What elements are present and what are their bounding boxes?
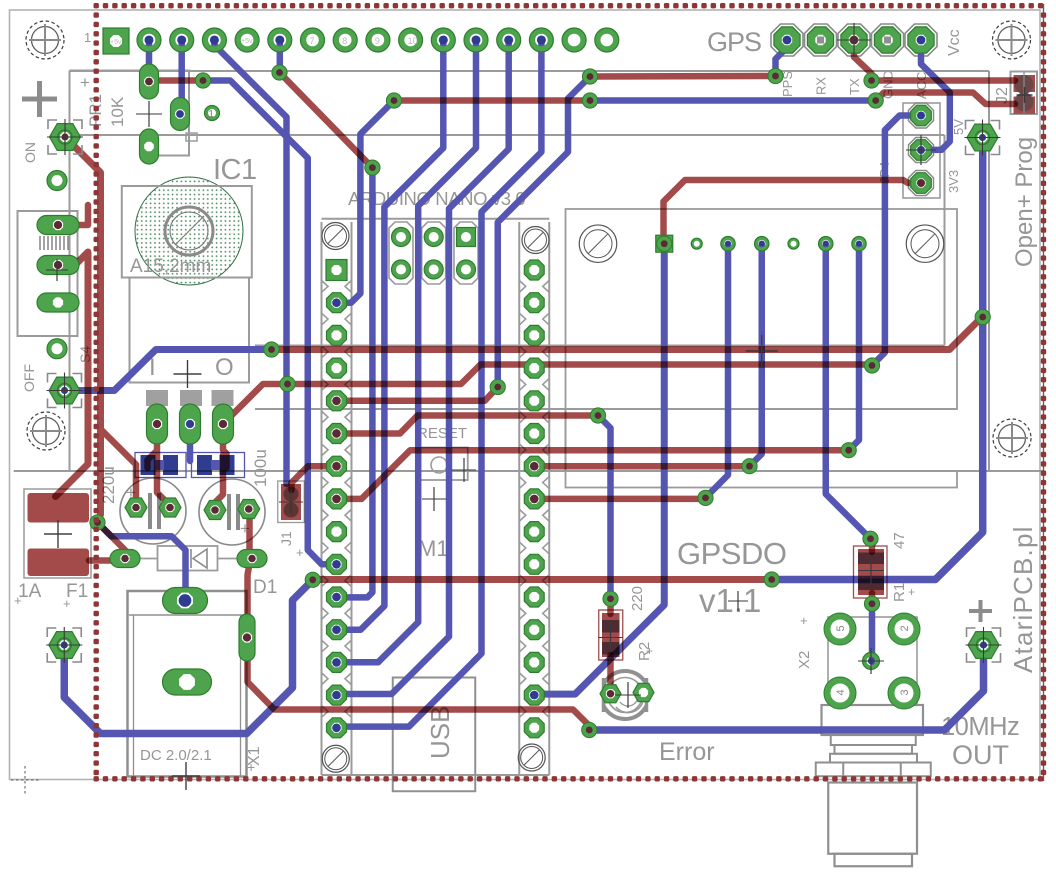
ICSP pad 3	[457, 228, 476, 247]
svg-text:OFF: OFF	[21, 364, 37, 392]
trace via diagonal	[280, 73, 373, 168]
nano pad R12	[524, 620, 544, 640]
X2 pad 3	[888, 677, 920, 709]
PR1 pad 1	[140, 64, 159, 99]
S4 origin cross	[46, 259, 68, 281]
trace S4 stub	[58, 205, 88, 225]
wire GND bottom rail	[589, 642, 983, 730]
header pad 5	[268, 28, 292, 52]
svg-text:D1: D1	[253, 577, 277, 598]
mounting hole top-right	[993, 21, 1031, 59]
capacitor C3 C4 outlines	[135, 453, 245, 478]
SMA connector outline	[816, 705, 931, 866]
ICSP pad 2	[424, 228, 443, 247]
header pad 8	[366, 28, 390, 52]
PR1 pad 3	[171, 98, 190, 131]
connector X1 label	[246, 746, 263, 775]
wire via to R2 via	[598, 416, 611, 599]
svg-text:8: 8	[342, 36, 347, 46]
svg-text:3V3: 3V3	[946, 170, 961, 193]
header pad 13	[529, 28, 553, 52]
trace branch to C1	[101, 429, 137, 505]
Nano hole marker bottom-right	[518, 744, 545, 771]
C2 pad 1	[204, 501, 226, 520]
wire bus to GPS via	[590, 97, 876, 104]
IC1 label	[213, 154, 257, 186]
svg-text:5: 5	[835, 625, 847, 631]
USB connector outline	[393, 678, 476, 792]
header pad 12	[497, 28, 521, 52]
IC1 A15,2mm label	[130, 256, 211, 277]
svg-text:+: +	[63, 596, 71, 611]
header pad 10	[431, 28, 455, 52]
nano pad L12	[327, 620, 347, 640]
svg-text:220: 220	[629, 586, 646, 611]
header pad 15	[595, 28, 619, 52]
svg-text:4: 4	[835, 689, 847, 695]
svg-text:M1: M1	[418, 536, 449, 561]
OCXO small pad 1	[691, 238, 702, 249]
X2 pad 5	[824, 613, 856, 645]
silkscreen frame	[14, 71, 1043, 471]
svg-text:RESET: RESET	[417, 425, 467, 442]
JP4 pin 2	[911, 140, 932, 161]
reset button outline	[417, 448, 468, 481]
plus mark right	[969, 600, 992, 622]
PR1 pad 2	[140, 129, 159, 164]
nano pad L10	[327, 554, 347, 574]
GPS pad 5	[908, 27, 934, 53]
test point OFF	[47, 373, 83, 409]
svg-text:5V: 5V	[951, 119, 966, 135]
nano pad R13	[524, 652, 544, 672]
svg-text:10K: 10K	[108, 96, 127, 127]
OCXO pad C	[755, 237, 769, 251]
10MHz OUT label	[941, 713, 1019, 770]
svg-text:GPSDO: GPSDO	[677, 536, 786, 571]
OFF label	[21, 364, 37, 392]
nano pad R7	[524, 456, 544, 476]
OCXO pad E	[852, 237, 866, 251]
bottom copper traces	[64, 39, 983, 734]
JP4 label 3V3	[946, 170, 961, 193]
vias	[90, 65, 990, 738]
capacitor C1 outline	[120, 478, 186, 544]
JP4 pin 3	[911, 173, 932, 194]
svg-text:GPS: GPS	[707, 27, 761, 57]
wire pad1 to PR1	[146, 40, 153, 85]
trace via to via GPS row	[590, 73, 776, 80]
header square pad +5V	[103, 28, 129, 54]
trace IC1 pad1 to C1	[157, 452, 170, 506]
wire via to nano pad2	[337, 101, 395, 303]
GPS pin label ACC	[914, 72, 929, 99]
nano pad L3	[327, 325, 347, 345]
IC1 pad 3	[213, 404, 234, 444]
svg-text:3: 3	[899, 689, 911, 695]
IC1 body outline	[122, 186, 252, 406]
Error label	[659, 738, 715, 766]
trace R2 to via	[607, 599, 614, 614]
header pad 1	[137, 28, 161, 52]
LED pad 1	[600, 685, 621, 703]
GPS connector outline	[771, 24, 937, 56]
trace IC1 pad3 to C2	[215, 455, 223, 508]
svg-text:RX: RX	[814, 77, 829, 95]
JP4 pin 1	[911, 105, 932, 126]
OCXO bottom strip	[566, 471, 958, 488]
resistor R2	[599, 610, 623, 660]
JP4 label	[877, 162, 892, 184]
OCXO inner edge	[944, 209, 946, 346]
J1 label	[278, 531, 304, 560]
svg-text:A15,2mm: A15,2mm	[130, 256, 211, 277]
svg-text:IC1: IC1	[213, 154, 257, 186]
header pad 11	[464, 28, 488, 52]
trace nano to via row C	[337, 387, 498, 401]
wire switch to rail via	[65, 350, 272, 391]
capacitor C2 value	[251, 449, 270, 487]
PR1 origin cross	[80, 73, 90, 92]
wire 5V rail left	[64, 580, 313, 734]
version cross	[728, 591, 748, 611]
trace IC1 pad1 to C3	[148, 424, 158, 468]
nano pad L15	[327, 718, 347, 738]
trimmer PR1 outline	[70, 71, 198, 156]
trace hex to C1 via	[65, 137, 101, 522]
nano pad R1	[524, 260, 544, 280]
test point GND left	[46, 627, 82, 663]
test point 10MHz	[966, 627, 1002, 663]
nano pad L5	[327, 391, 347, 411]
mounting hole left-middle	[27, 412, 65, 450]
wire via to row C via	[498, 77, 590, 391]
capacitor C2 outline	[199, 479, 265, 545]
trace fuse to D1	[89, 559, 125, 561]
wire pad2 to PR1 wiper	[178, 40, 185, 112]
S4 pad 1	[37, 216, 79, 235]
nano pad R3	[524, 325, 544, 345]
svg-text:+: +	[908, 585, 915, 599]
M1 label	[418, 536, 449, 561]
nano pad R11	[524, 587, 544, 607]
JP4 pin2 cross	[906, 135, 936, 165]
S4 ring top	[47, 171, 67, 191]
svg-text:+: +	[296, 545, 304, 560]
trace nano to J1	[292, 466, 337, 490]
svg-text:7: 7	[310, 36, 315, 46]
trace S4 to fuse	[56, 252, 89, 497]
nano pad L7	[327, 456, 347, 476]
OCXO hole right	[906, 225, 944, 263]
C1 pad 2	[159, 498, 181, 517]
wire via to nano k9	[203, 81, 337, 565]
svg-text:+: +	[80, 73, 90, 92]
ICSP pad 1	[392, 228, 411, 247]
svg-text:+5v: +5v	[110, 39, 122, 46]
ICSP pad 6	[457, 260, 476, 279]
RESET label	[417, 425, 467, 442]
svg-text:X2: X2	[796, 651, 813, 669]
Nano hole marker bottom-left	[322, 745, 349, 772]
ICSP pad 5	[424, 260, 443, 279]
switch S4 outline	[18, 211, 78, 336]
GPS pin label PPS	[780, 71, 795, 97]
wire via down to nano k10	[337, 168, 373, 598]
trace GPS TX to J2	[854, 40, 1015, 81]
nano pad R14	[524, 685, 544, 705]
trace nano to via row D	[337, 416, 599, 434]
trace 5V rail mid	[313, 576, 772, 583]
GPS label	[707, 27, 761, 57]
S4 ring bottom	[47, 339, 67, 359]
Vcc label	[946, 29, 963, 56]
header pad 6	[301, 28, 325, 52]
Nano hole marker top-left	[322, 223, 349, 250]
nano pad L4	[327, 358, 347, 378]
svg-text:1: 1	[84, 30, 91, 45]
IC1 pin labels I O	[149, 354, 234, 381]
LED outline	[595, 667, 655, 723]
AtariPCB.pl label	[1008, 525, 1038, 673]
wire OCXO pad D to R1 via	[826, 244, 871, 539]
nano pad L13	[327, 652, 347, 672]
origin crosses overlay	[44, 23, 936, 790]
nano pad L8	[327, 489, 347, 509]
X2 pad 4	[824, 677, 856, 709]
svg-text:DC 2.0/2.1: DC 2.0/2.1	[140, 747, 212, 764]
svg-text:+: +	[800, 613, 808, 628]
R2 labels	[629, 586, 653, 661]
IC1 origin cross	[174, 360, 202, 388]
connector J2 pads	[1014, 73, 1036, 114]
X1 pad top	[163, 588, 208, 614]
X1 pad side	[239, 614, 255, 661]
capacitor C1 plus	[126, 483, 136, 502]
OCXO center cross	[746, 335, 778, 367]
wire pad3 down to J1 via	[214, 40, 286, 484]
jumper J1	[278, 481, 305, 523]
nano pad R5	[524, 391, 544, 411]
nano pad L1	[326, 260, 347, 281]
Arduino Nano label	[348, 188, 525, 209]
trace via to D1 left	[98, 523, 126, 558]
nano pad L11	[327, 587, 347, 607]
fuse F1 pads	[28, 493, 90, 576]
svg-text:J1: J1	[278, 531, 294, 546]
wire IC1 pad2 stub	[187, 424, 194, 461]
GPS pin label GND	[881, 70, 896, 99]
svg-text:2: 2	[899, 625, 911, 631]
version label	[699, 582, 761, 619]
nano pad R4	[524, 358, 544, 378]
X2 pad 2	[888, 613, 920, 645]
PR1 center cross	[136, 101, 162, 127]
wire pad5 down to via	[277, 40, 284, 73]
trace IC1 pad3 to C4	[223, 424, 227, 468]
GPS pad 4	[874, 27, 900, 53]
wire OCXO pad C to via	[750, 244, 762, 467]
IC1 pad 1	[147, 404, 168, 444]
trace D1 to X1 to GND rail	[248, 561, 590, 730]
ON label	[22, 142, 38, 163]
PR1 small pad	[205, 106, 220, 121]
top layer components	[28, 73, 1036, 661]
trace R1 to via	[869, 593, 876, 604]
svg-text:+: +	[14, 593, 22, 608]
connector X1 label DC	[140, 747, 212, 764]
origin marker	[11, 766, 40, 794]
trace R1 via to R1	[869, 539, 876, 552]
D1 pad 2	[237, 550, 267, 568]
S4 pad 2	[37, 256, 79, 275]
wire pad10 to nano k11	[337, 40, 444, 630]
nano pad R15	[524, 718, 544, 738]
D1 pad 1	[110, 550, 140, 568]
connector X1 outline	[128, 591, 247, 777]
test point ON	[47, 119, 83, 155]
resistor R1	[854, 546, 888, 598]
GPS pad 2	[807, 27, 833, 53]
svg-text:Open+ Prog: Open+ Prog	[1011, 137, 1038, 267]
nano pad L9	[327, 522, 347, 542]
OCXO pad D	[819, 237, 833, 251]
Nano hole marker top-right	[522, 227, 549, 254]
IC1 hatched circle	[135, 177, 243, 285]
X1 pad center	[163, 669, 212, 695]
wire pad12 to nano k13	[337, 40, 509, 694]
header pad 9	[399, 28, 423, 52]
svg-text:USB: USB	[425, 706, 455, 759]
wire pad11 to nano k12	[337, 40, 477, 662]
svg-text:Error: Error	[659, 738, 715, 766]
nano pad R6	[524, 424, 544, 444]
svg-text:+: +	[646, 644, 653, 658]
ICSP header outline	[389, 222, 478, 284]
OCXO box	[566, 209, 958, 409]
mounting hole top-left	[26, 21, 64, 59]
wire GPS PPS	[776, 40, 788, 76]
X2 center cross	[858, 648, 884, 674]
module center cross	[452, 458, 476, 482]
wire OCXO pad B to via	[706, 244, 729, 498]
header pad 7	[333, 28, 357, 52]
header pad 14	[562, 28, 586, 52]
fuse F1 labels	[14, 581, 88, 611]
J2 label	[994, 87, 1011, 104]
trace C2 to D1	[246, 509, 253, 556]
plus mark	[22, 81, 57, 117]
X2 center pad	[863, 653, 880, 670]
header pad 2	[170, 28, 194, 52]
svg-text:-1: -1	[205, 109, 214, 120]
diode D1 label	[253, 577, 277, 598]
nano pad L14	[327, 685, 347, 705]
reset origin cross	[422, 487, 446, 511]
pin 1 label	[84, 30, 91, 45]
wire OCXO pad A to nano	[534, 244, 664, 694]
wire R1 via to X2	[869, 604, 876, 662]
X2 label	[796, 613, 813, 669]
mounting hole right-middle	[993, 419, 1031, 457]
nano pad L2	[327, 293, 347, 313]
svg-text:R1: R1	[891, 583, 908, 602]
S4 pad 3	[37, 293, 79, 312]
test point Prog	[965, 120, 1001, 156]
svg-text:ON: ON	[22, 142, 38, 163]
trace main rail	[272, 317, 983, 350]
C1 pad 1	[125, 498, 147, 517]
connector X2 outline	[828, 617, 917, 705]
IC1 pad 2	[180, 404, 201, 444]
svg-text:+5v: +5v	[241, 38, 253, 45]
nano pad L6	[327, 424, 347, 444]
nano pad R2	[524, 293, 544, 313]
GPS pad3 cross	[837, 23, 871, 57]
header pad 4	[235, 28, 259, 52]
LED origin cross	[615, 682, 641, 708]
trace via to J2 pin2	[876, 93, 1015, 105]
svg-text:TX: TX	[847, 78, 862, 95]
Open+ Prog label	[1011, 137, 1038, 267]
trace via to nano right 1	[534, 463, 749, 470]
connector J2 outline	[1011, 72, 1038, 115]
JP4 label 5V	[951, 119, 966, 135]
trace 3V3 JP4 to OCXO	[664, 180, 922, 244]
capacitor C2 plus	[240, 519, 250, 538]
svg-text:Vcc: Vcc	[946, 29, 963, 56]
GPS pin label TX	[847, 78, 862, 95]
GPS pad 3	[841, 27, 867, 53]
OCXO pad B	[721, 237, 735, 251]
top copper traces	[56, 40, 1016, 730]
ICSP pad 4	[392, 260, 411, 279]
wire pad13 to nano k14	[337, 40, 542, 727]
wire OCXO pad E to via	[849, 244, 859, 451]
wire via to X1 pad	[98, 523, 186, 604]
OCXO square pad	[656, 235, 673, 252]
svg-text:+: +	[247, 759, 255, 775]
nano pad R9	[524, 522, 544, 542]
wire JP4 pin1 to via	[872, 116, 921, 366]
wire GPS Vcc to JP4	[921, 39, 950, 150]
trace R2 to LED	[607, 655, 614, 697]
trace IC1 out to JP4 5V	[223, 365, 872, 425]
nano pad R8	[524, 489, 544, 509]
pad numbers	[110, 36, 418, 46]
capacitor C4 body	[197, 455, 235, 475]
capacitor C1 value	[99, 466, 118, 504]
trace PR1 to via	[146, 77, 203, 84]
wire 5V rail right	[772, 138, 983, 580]
svg-text:10: 10	[408, 36, 418, 46]
diode D1 outline	[125, 546, 248, 571]
GPS pad 1	[774, 27, 800, 53]
header pad 3	[202, 28, 226, 52]
C2 pad 2	[238, 500, 260, 519]
fuse F1 outline	[24, 489, 91, 578]
GPS pin label RX	[814, 77, 829, 95]
trace nano to R1 via	[337, 450, 849, 499]
GPSDO title	[677, 536, 786, 571]
svg-text:AtariPCB.pl: AtariPCB.pl	[1008, 525, 1038, 673]
svg-text:O: O	[215, 354, 234, 381]
switch S4 label	[77, 346, 93, 363]
svg-text:OUT: OUT	[952, 740, 1009, 770]
nano pad R10	[524, 554, 544, 574]
LED pad 2	[633, 683, 654, 701]
R1 labels	[891, 532, 915, 623]
